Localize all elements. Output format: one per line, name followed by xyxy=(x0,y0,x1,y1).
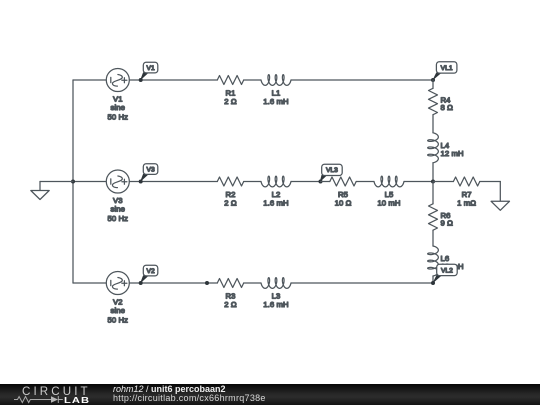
ground right xyxy=(491,201,509,210)
resistor R5 xyxy=(330,177,356,186)
wire ground tap vertical xyxy=(39,182,41,191)
wire row2 source to R2 xyxy=(129,181,217,183)
ground left xyxy=(31,191,49,200)
wire left rail vertical xyxy=(72,80,74,283)
svg-text:1.6 mH: 1.6 mH xyxy=(263,198,288,207)
wire R6 to L6 xyxy=(432,230,434,246)
inductor L1 xyxy=(261,75,291,86)
svg-text:1.6 mH: 1.6 mH xyxy=(263,300,288,309)
wire row1 left lead xyxy=(73,79,106,81)
inductor L2 xyxy=(261,176,291,187)
net flag VL3 xyxy=(322,164,343,175)
wire row3 L3 to right rail xyxy=(291,282,433,284)
svg-text:9 Ω: 9 Ω xyxy=(441,218,454,227)
wire junction to R6 xyxy=(432,182,434,204)
node VL1 xyxy=(431,78,435,82)
svg-text:10 Ω: 10 Ω xyxy=(335,198,352,207)
net flag VL2 pointer xyxy=(432,273,444,283)
wire right ground drop xyxy=(499,182,501,202)
net flag V2 xyxy=(143,265,158,276)
CircuitLab logo resistor-diode graphic xyxy=(14,395,63,404)
resistor R7 xyxy=(453,177,479,186)
voltage source V1 (sine 50 Hz) xyxy=(106,69,129,92)
svg-text:10 mH: 10 mH xyxy=(377,198,400,207)
svg-text:VL1: VL1 xyxy=(441,65,453,72)
footer url line xyxy=(113,393,266,403)
svg-text:sine: sine xyxy=(111,306,126,315)
wire row3 left lead xyxy=(73,282,106,284)
net flag V1 pointer xyxy=(140,71,151,81)
net flag V2 pointer xyxy=(140,274,151,284)
net flag VL1 pointer xyxy=(432,71,444,81)
net flag VL1 xyxy=(436,62,457,73)
net flag V3 xyxy=(143,164,158,175)
svg-text:V1: V1 xyxy=(147,65,155,72)
inductor L3 xyxy=(261,278,291,289)
wire row3 source to R3 xyxy=(129,282,217,284)
inductor L4 xyxy=(428,133,439,163)
svg-text:V3: V3 xyxy=(147,167,155,174)
node load star point xyxy=(431,180,435,184)
wire row1 L1 to right rail xyxy=(291,79,433,81)
wire row1 R1 to L1 xyxy=(244,79,261,81)
wire L4 to junction xyxy=(432,163,434,182)
wire row2 L2 to VL3 node xyxy=(291,181,321,183)
node VL3 xyxy=(319,180,323,184)
node VL2 xyxy=(431,281,435,285)
wire row2 left lead xyxy=(73,181,106,183)
wire row1 source to R1 xyxy=(129,79,217,81)
net flag VL3 pointer xyxy=(320,173,330,182)
voltage source V3 (sine 50 Hz) xyxy=(106,170,129,193)
svg-text:2 Ω: 2 Ω xyxy=(224,300,237,309)
wire row2 L5 to junction xyxy=(404,181,433,183)
wire right rail top to R4 xyxy=(432,80,434,88)
inductor L5 xyxy=(374,176,404,187)
svg-text:50 Hz: 50 Hz xyxy=(108,316,129,325)
node V1 output xyxy=(139,78,143,82)
wire junction to R7 xyxy=(433,181,453,183)
svg-text:V2: V2 xyxy=(147,268,155,275)
net flag V3 pointer xyxy=(140,172,151,182)
svg-text:2 Ω: 2 Ω xyxy=(224,97,237,106)
resistor R1 xyxy=(217,76,243,85)
footer title line xyxy=(113,384,226,394)
inductor L6 xyxy=(428,246,439,276)
wire row3 R3 to L3 xyxy=(244,282,261,284)
wire L6 to bottom row xyxy=(432,276,434,283)
voltage source V2 (sine 50 Hz) xyxy=(106,272,129,295)
wire R7 to corner xyxy=(480,181,501,183)
node row3 mid xyxy=(205,281,209,285)
svg-text:50 Hz: 50 Hz xyxy=(108,214,129,223)
wire R4 to L4 xyxy=(432,115,434,133)
svg-text:sine: sine xyxy=(111,103,126,112)
svg-text:VL2: VL2 xyxy=(441,267,453,274)
wire row2 R5 to L5 xyxy=(356,181,374,183)
resistor R6 xyxy=(429,204,438,230)
net flag V1 xyxy=(143,62,158,73)
svg-text:VL3: VL3 xyxy=(326,167,338,174)
resistor R3 xyxy=(217,279,243,288)
node left rail junction xyxy=(71,180,75,184)
svg-text:2 Ω: 2 Ω xyxy=(224,198,237,207)
svg-text:1 mΩ: 1 mΩ xyxy=(457,198,476,207)
CircuitLab logo text CIRCUIT xyxy=(22,385,91,398)
resistor R4 xyxy=(429,88,438,114)
wire row2 R2 to L2 xyxy=(244,181,261,183)
node V2 output xyxy=(139,281,143,285)
svg-text:sine: sine xyxy=(111,205,126,214)
footer bar xyxy=(0,384,540,405)
wire ground tap horizontal xyxy=(40,181,73,183)
CircuitLab logo text LAB xyxy=(64,395,90,405)
svg-text:50 Hz: 50 Hz xyxy=(108,113,129,122)
resistor R2 xyxy=(217,177,243,186)
svg-text:12 mH: 12 mH xyxy=(441,149,464,158)
node V3 output xyxy=(139,180,143,184)
svg-text:1.6 mH: 1.6 mH xyxy=(263,97,288,106)
svg-text:8 Ω: 8 Ω xyxy=(441,103,454,112)
wire row2 node to R5 xyxy=(321,181,330,183)
net flag VL2 xyxy=(437,264,458,275)
